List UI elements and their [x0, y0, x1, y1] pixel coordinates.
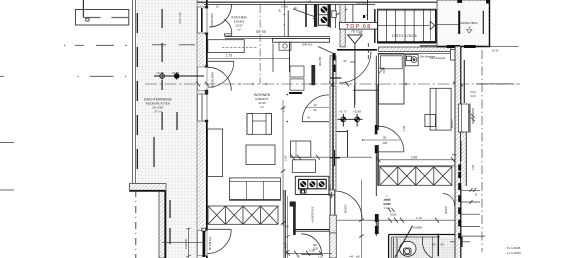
kitchen counter left — [208, 40, 258, 53]
svg-text:1.98: 1.98 — [402, 125, 406, 131]
svg-text:1.67: 1.67 — [283, 242, 287, 248]
dim line y140 with labels — [362, 139, 400, 141]
small room rects left of corridor — [290, 66, 304, 90]
left margin dashes — [0, 143, 14, 191]
bottom dim line y253 — [285, 251, 332, 256]
bath door arc — [422, 237, 432, 258]
svg-text:90: 90 — [441, 243, 445, 247]
hatched wall x340 — [340, 4, 345, 47]
bathroom — [389, 234, 458, 258]
window box on east wall — [459, 60, 470, 133]
appliance boxes left of corridor wall — [291, 141, 316, 172]
door arc kitchenette bottom — [301, 234, 322, 255]
stair walking line — [378, 25, 429, 27]
wall below TOP08 — [337, 49, 377, 51]
corridor wall x330 hatched — [330, 56, 336, 84]
svg-text:90/205: 90/205 — [318, 56, 322, 66]
coffee table — [246, 145, 275, 165]
section funnel symbol — [348, 35, 363, 105]
svg-text:95: 95 — [343, 59, 346, 63]
svg-text:80 CM EG: 80 CM EG — [208, 237, 212, 250]
roof structure top-left — [75, 0, 128, 25]
terrace door arc lower — [207, 230, 231, 254]
svg-text:1.48: 1.48 — [306, 1, 311, 4]
drain symbol 1 — [159, 73, 166, 80]
nightstand with lamp — [405, 55, 418, 66]
terrace left edge double line — [133, 0, 138, 184]
axis line y46 — [64, 45, 195, 46]
right margin: vertical axis dash-dot — [481, 50, 483, 252]
floor level marker 1 — [338, 114, 363, 127]
lower door black leaf bar — [203, 229, 206, 258]
wardrobe with X bracing (right room) — [380, 167, 452, 186]
svg-text:10: 10 — [314, 103, 318, 107]
svg-text:2.96: 2.96 — [284, 155, 288, 161]
wall line x306 — [305, 4, 307, 27]
TOP 08 label box — [339, 22, 377, 34]
kitchenette cooktop 3 rings — [299, 179, 327, 188]
terrace door lower gap — [198, 231, 208, 256]
svg-text:+5.07: +5.07 — [172, 71, 180, 75]
main horizontal reference line y84 — [145, 82, 520, 87]
sideboard with X bracing — [208, 206, 278, 224]
KOCHEN text block — [232, 16, 247, 32]
kitchenette room walls — [293, 194, 331, 231]
vertical axis dash-dot x260 — [259, 5, 261, 84]
svg-text:FERNW.ÜBGA: FERNW.ÜBGA — [459, 21, 477, 25]
svg-text:Die Hinweise: Die Hinweise — [420, 55, 436, 59]
west exterior wall hatched strip — [197, 0, 204, 258]
wc door arc — [302, 95, 329, 122]
window upper in west wall — [198, 6, 209, 35]
right margin horizontal stubs — [476, 47, 518, 84]
wc top wall black bar — [289, 92, 302, 94]
svg-text:1.08: 1.08 — [309, 249, 315, 253]
svg-text:NF: NF — [359, 32, 363, 35]
bedroom door arc bottom — [378, 126, 404, 152]
svg-text:37 m²: 37 m² — [154, 110, 162, 114]
shower partition lines — [393, 238, 395, 258]
terrace step parapet band — [130, 184, 167, 258]
svg-text:2.26: 2.26 — [471, 164, 475, 170]
wall line x288 top — [287, 11, 289, 37]
vertical dim line x283 — [281, 100, 286, 226]
black door bars on east wall — [458, 183, 461, 238]
shelf along west wall — [208, 129, 223, 177]
corridor vertical dim x361.5 — [359, 180, 364, 258]
right margin tick marks — [471, 108, 475, 124]
dimension line y157 left — [290, 155, 372, 160]
legend bottom right — [505, 246, 521, 255]
dim line y220 — [337, 218, 460, 223]
svg-text:2.0m²: 2.0m² — [384, 206, 391, 210]
bottom-left vertical dim line — [162, 228, 204, 258]
svg-text:- 5 cm RAB: - 5 cm RAB — [505, 246, 520, 250]
svg-text:KU/BW: KU/BW — [413, 225, 423, 229]
drain symbol 2 — [173, 73, 180, 80]
terrace door arc upper (into living room) — [208, 67, 231, 90]
sofa — [230, 178, 281, 200]
bedroom top wall line — [378, 52, 455, 54]
floor level marker 2 — [355, 114, 360, 127]
storage room label — [383, 194, 391, 210]
toilet — [400, 241, 416, 256]
top exterior wall — [197, 2, 447, 4]
cooktop 2 rings — [319, 4, 330, 25]
svg-text:4.50 1.50: 4.50 1.50 — [178, 12, 182, 24]
west wall inner face segments — [206, 0, 208, 258]
svg-text:ABST.: ABST. — [383, 198, 390, 202]
WOHNEN text block — [254, 93, 271, 109]
svg-text:205: 205 — [350, 60, 355, 64]
wall segment x314 — [314, 4, 317, 27]
terrace floor lower — [166, 184, 197, 258]
kitchen island / worktop top — [225, 37, 330, 43]
vertical dim x287.5 — [285, 196, 290, 258]
misc tiny dimension clutter — [216, 1, 369, 258]
desk in right room — [425, 88, 451, 130]
dimension line y160 — [376, 157, 458, 162]
stair flight — [378, 9, 436, 43]
svg-text:2.60a: 2.60a — [281, 5, 288, 9]
svg-text:GL: GL — [307, 116, 311, 120]
wall segment x328 — [328, 4, 331, 27]
dashed projection line below terrace edge — [135, 190, 137, 258]
svg-text:205: 205 — [383, 141, 388, 145]
door diagonal top left of TOP08 — [293, 9, 317, 18]
corridor wall right x376 — [376, 56, 378, 196]
extra black bars y164-178 — [458, 165, 461, 171]
svg-text:+4.50 BRH: +4.50 BRH — [328, 185, 332, 198]
corridor entry door arc — [339, 51, 371, 83]
west wall window band background — [204, 0, 207, 258]
wall line x289 — [289, 42, 291, 72]
svg-text:+4.85/SPÜLE: +4.85/SPÜLE — [311, 206, 315, 223]
svg-text:1-W 04/5: 1-W 04/5 — [356, 1, 367, 5]
corridor niche lines — [337, 131, 348, 133]
svg-text:20|15: 20|15 — [390, 213, 397, 217]
svg-text:1.75: 1.75 — [226, 54, 232, 58]
armchair — [247, 114, 272, 135]
terrace floor upper — [137, 0, 197, 184]
svg-text:90: 90 — [314, 108, 318, 112]
kitchenette wall x284 — [284, 190, 286, 258]
svg-text:+5.98: +5.98 — [353, 110, 361, 114]
east wall shaft extra hatch — [461, 126, 466, 187]
shower diagonal — [395, 226, 413, 258]
svg-text:m²: m² — [260, 105, 264, 109]
east wall below step — [455, 47, 461, 258]
svg-text:80/205: 80/205 — [444, 206, 448, 214]
svg-text:26 30: 26 30 — [492, 50, 499, 53]
kitchenette counter — [295, 176, 329, 194]
drain connect line y76 — [154, 75, 204, 77]
svg-text:2.96: 2.96 — [411, 155, 417, 159]
svg-text:80/205: 80/205 — [344, 204, 348, 213]
stair direction arrow — [430, 22, 435, 30]
dim line y58.5 — [206, 58, 289, 60]
svg-text:17STG 17K/28: 17STG 17K/28 — [391, 34, 416, 38]
corridor wall x376 lower segment — [376, 214, 378, 236]
svg-text:90/205 BRH: 90/205 BRH — [210, 13, 214, 27]
wall strip below stairs — [379, 47, 451, 52]
svg-text:- 2 cm WDV: - 2 cm WDV — [505, 251, 521, 255]
door diagonal near kitchen — [318, 47, 335, 55]
terrace door leaf open up — [207, 60, 234, 62]
corridor wall dark face x333 — [332, 56, 334, 190]
svg-text:+5.17: +5.17 — [156, 71, 164, 75]
terrace door upper gap — [198, 67, 208, 91]
sink — [279, 42, 291, 50]
svg-text:1.45: 1.45 — [282, 106, 286, 112]
corridor big door arc — [335, 191, 363, 219]
svg-text:m²: m² — [237, 28, 241, 32]
svg-text:RAUM: RAUM — [383, 202, 391, 206]
svg-text:W: W — [468, 26, 471, 30]
arc right room y193 — [443, 194, 455, 206]
verticals near TOP08 — [363, 0, 375, 60]
top-right utility room — [420, 0, 490, 48]
wall x311 vertical — [311, 65, 315, 85]
svg-text:WM: WM — [302, 43, 308, 47]
bold ticks near wall x333 at y158 — [330, 157, 340, 159]
svg-text:1.15: 1.15 — [416, 216, 422, 220]
DACHTERRASSE text block — [144, 98, 173, 114]
east wall stubs ladder — [452, 155, 485, 236]
svg-text:50: 50 — [433, 243, 437, 247]
svg-text:+5.77: +5.77 — [339, 110, 347, 114]
bed — [379, 54, 404, 104]
axis line y76 — [0, 76, 126, 77]
svg-text:95: 95 — [383, 136, 387, 140]
wall x330-336 top with window — [331, 4, 337, 28]
kitchen door arc top — [209, 5, 232, 28]
window mid in west wall — [198, 92, 209, 122]
svg-text:GS: GS — [308, 43, 312, 47]
svg-text:140/245: 140/245 — [184, 238, 188, 249]
svg-text:90/205: 90/205 — [450, 119, 454, 128]
svg-text:90/205 BRH: 90/205 BRH — [211, 72, 215, 88]
terrace expansion joint dashed x164 — [154, 9, 177, 244]
closet niche walls — [353, 85, 378, 108]
hatched pier x330 lower — [330, 215, 337, 233]
svg-text:95: 95 — [262, 30, 266, 34]
